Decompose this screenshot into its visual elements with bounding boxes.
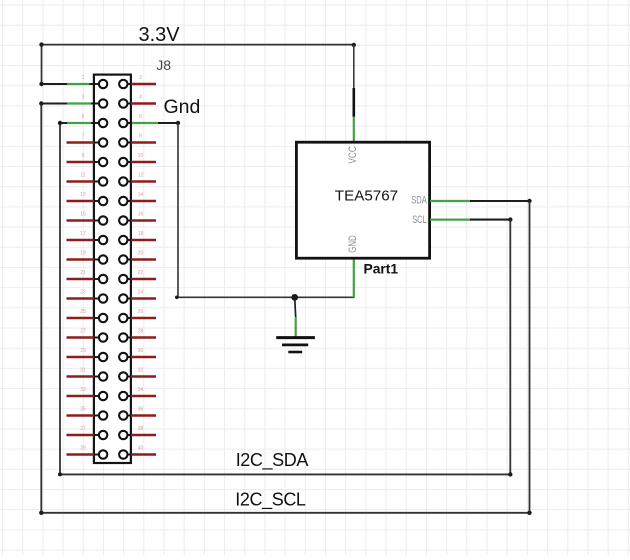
pin 28 pad: [119, 333, 127, 341]
svg-text:40: 40: [138, 446, 144, 452]
pin 2 pad: [119, 80, 127, 88]
connector J8 body: [94, 75, 131, 463]
node SDA corner: [527, 199, 531, 203]
svg-text:SDA: SDA: [411, 194, 427, 206]
pin 14 lead (right stub): [127, 200, 156, 202]
svg-text:36: 36: [138, 407, 144, 413]
pin 20 lead (right stub): [127, 259, 156, 261]
svg-text:22: 22: [138, 270, 144, 276]
pin 29 pad: [99, 353, 107, 361]
svg-text:8: 8: [139, 134, 142, 140]
pin 17 pad: [99, 236, 107, 244]
pin 9 pad: [99, 158, 107, 166]
svg-text:15: 15: [80, 212, 86, 218]
pin 10 pad: [119, 158, 127, 166]
pin 38 pad: [119, 431, 127, 439]
wire VCC drop lower: [352, 88, 355, 117]
pin 26 pad: [119, 314, 127, 322]
svg-text:12: 12: [138, 173, 144, 179]
pin VCC lead of U1 (green): [353, 117, 355, 144]
svg-text:2: 2: [139, 75, 142, 81]
pin 4 pad: [119, 99, 127, 107]
svg-text:39: 39: [80, 446, 86, 452]
pin 13 pad: [99, 197, 107, 205]
pin 8 pad: [119, 138, 127, 146]
pin 15 pad: [99, 216, 107, 224]
wire ground net horizontal: [177, 296, 355, 298]
pin 24 lead (right stub): [127, 298, 156, 300]
pin 38 lead (right stub): [127, 434, 156, 436]
pin 4 lead (right stub): [127, 103, 156, 105]
pin 18 pad: [119, 236, 127, 244]
pin 27 pad: [99, 333, 107, 341]
svg-text:20: 20: [138, 251, 144, 257]
pin 19 lead (left stub): [67, 258, 100, 260]
pin 12 lead (right stub): [127, 181, 156, 183]
svg-text:25: 25: [80, 309, 86, 315]
pin 30 pad: [119, 353, 127, 361]
pin 32 pad: [119, 372, 127, 380]
pin 5 lead green: [67, 122, 91, 124]
svg-text:30: 30: [138, 348, 144, 354]
svg-text:18: 18: [138, 231, 144, 237]
svg-text:23: 23: [80, 290, 86, 296]
pin 9 lead (left stub): [67, 161, 100, 163]
ground symbol lead (green): [295, 317, 297, 338]
svg-text:11: 11: [80, 173, 85, 179]
ground symbol: [276, 338, 315, 352]
svg-text:17: 17: [80, 231, 86, 237]
node I2C_SDA right corner: [508, 472, 512, 476]
wire I2C_SDA horizontal: [60, 473, 510, 475]
pin 33 lead (left stub): [67, 395, 100, 397]
pin 16 pad: [119, 216, 127, 224]
wire 3.3V net left vertical: [41, 45, 43, 84]
pin 18 lead (right stub): [127, 239, 156, 241]
pin 15 lead (left stub): [67, 219, 100, 221]
pin 14 pad: [119, 197, 127, 205]
pin 32 lead (right stub): [127, 376, 156, 378]
pin SCL lead of U1 (green): [430, 219, 471, 221]
pin 28 lead (right stub): [127, 337, 156, 339]
svg-text:J8: J8: [156, 57, 171, 73]
pin 6 pad: [119, 119, 127, 127]
pin 31 lead (left stub): [67, 375, 100, 377]
pin 17 lead (left stub): [67, 239, 100, 241]
pin 34 pad: [119, 392, 127, 400]
pin 6 lead tick: [127, 122, 131, 124]
node 3.3V right corner: [352, 43, 356, 47]
pin 33 pad: [99, 392, 107, 400]
pin GND lead of U1 (green): [353, 258, 355, 297]
pin 34 lead (right stub): [127, 395, 156, 397]
wire SDA to outer vertical: [470, 200, 530, 202]
node pin1 wire end: [39, 82, 43, 86]
svg-text:21: 21: [80, 270, 86, 276]
pin 16 lead (right stub): [127, 220, 156, 222]
pin 1 lead tick: [94, 83, 99, 85]
svg-text:26: 26: [138, 309, 144, 315]
pin 39 lead (left stub): [67, 453, 100, 455]
svg-text:3: 3: [82, 95, 85, 101]
pin 27 lead (left stub): [67, 336, 100, 338]
svg-text:27: 27: [80, 329, 86, 335]
svg-text:19: 19: [80, 251, 86, 257]
svg-text:Gnd: Gnd: [164, 96, 201, 118]
pin 10 lead (right stub): [127, 161, 156, 163]
wire ground stem: [295, 297, 296, 317]
pin 13 lead (left stub): [67, 200, 100, 202]
svg-text:Part1: Part1: [364, 262, 399, 277]
svg-text:9: 9: [82, 153, 85, 159]
pin 11 pad: [99, 177, 107, 185]
svg-text:29: 29: [80, 348, 86, 354]
wire pin6 to ground net horizontal: [127, 122, 178, 124]
pin SDA lead of U1 (green): [430, 200, 471, 202]
pin 25 pad: [99, 314, 107, 322]
pin 36 pad: [119, 411, 127, 419]
pin 3 lead tick: [94, 103, 99, 105]
pin 37 pad: [99, 431, 107, 439]
pin 35 lead (left stub): [67, 414, 100, 416]
node pin5 corner: [58, 121, 62, 125]
pin 20 pad: [119, 255, 127, 263]
svg-text:VCC: VCC: [347, 146, 359, 164]
wire SCL to inner vertical: [470, 219, 510, 221]
wire VCC drop upper: [353, 45, 355, 89]
wire right outer vertical: [529, 201, 531, 513]
node pin6 junction: [176, 121, 180, 125]
pin 26 lead (right stub): [127, 317, 156, 319]
pin 6 lead green: [131, 122, 158, 124]
svg-text:TEA5767: TEA5767: [335, 187, 398, 204]
pin 2 lead (right stub): [127, 83, 156, 85]
svg-text:24: 24: [138, 290, 144, 296]
pin 35 pad: [99, 411, 107, 419]
pin 23 lead (left stub): [67, 297, 100, 299]
pin 37 lead (left stub): [67, 434, 100, 436]
pin 39 pad: [99, 450, 107, 458]
pin 40 lead (right stub): [127, 454, 156, 456]
svg-text:16: 16: [138, 212, 144, 218]
pin 36 lead (right stub): [127, 415, 156, 417]
svg-text:I2C_SDA: I2C_SDA: [236, 450, 309, 471]
pin 25 lead (left stub): [67, 317, 100, 319]
pin 3 lead green: [67, 102, 91, 104]
svg-text:5: 5: [82, 114, 85, 120]
svg-text:13: 13: [80, 192, 86, 198]
pin 29 lead (left stub): [67, 356, 100, 358]
svg-text:3.3V: 3.3V: [139, 24, 181, 46]
svg-text:I2C_SCL: I2C_SCL: [235, 490, 306, 511]
node I2C_SCL left corner: [39, 511, 43, 515]
wire 3.3V net horizontal: [42, 44, 354, 46]
svg-text:35: 35: [80, 407, 86, 413]
node 3.3V left corner: [39, 42, 43, 46]
pin 11 lead (left stub): [67, 180, 100, 182]
node ground wire left end: [175, 296, 179, 300]
pin 1 lead green: [67, 83, 90, 85]
wire pin3 to I2C_SCL left vertical: [40, 104, 42, 513]
pin 7 lead (left stub): [67, 141, 100, 143]
pin 5 pad: [99, 119, 107, 127]
wire pin1 (3.3V) horizontal: [42, 83, 100, 85]
wire pin3 horizontal: [41, 103, 99, 105]
svg-text:7: 7: [82, 134, 85, 140]
wire pin5 horizontal: [60, 122, 99, 124]
pin 12 pad: [119, 177, 127, 185]
pin 21 pad: [99, 275, 107, 283]
pin 40 pad: [119, 450, 127, 458]
wire right inner vertical: [509, 220, 511, 475]
svg-text:32: 32: [138, 368, 144, 374]
pin 22 pad: [119, 275, 127, 283]
pin 23 pad: [99, 294, 107, 302]
svg-text:SCL: SCL: [412, 214, 427, 226]
pin 5 lead tick: [94, 122, 99, 124]
svg-text:38: 38: [138, 426, 144, 432]
node I2C_SDA left corner: [58, 472, 62, 476]
svg-text:GND: GND: [347, 235, 359, 253]
svg-text:33: 33: [80, 387, 86, 393]
node pin3 corner: [39, 101, 43, 105]
svg-text:4: 4: [139, 95, 142, 101]
svg-text:37: 37: [80, 426, 86, 432]
pin 8 lead (right stub): [127, 142, 156, 144]
node I2C_SCL right corner: [527, 511, 531, 515]
svg-text:31: 31: [80, 368, 86, 374]
pin 30 lead (right stub): [127, 356, 156, 358]
pin 21 lead (left stub): [67, 278, 100, 280]
pin 1 pad: [99, 80, 107, 88]
svg-text:14: 14: [138, 192, 144, 198]
IC U1 TEA5767 body: [296, 142, 429, 258]
node SCL corner: [508, 217, 512, 221]
pin 3 pad: [99, 99, 107, 107]
svg-text:1: 1: [82, 75, 85, 81]
wire I2C_SCL horizontal: [41, 512, 529, 514]
pin 24 pad: [119, 294, 127, 302]
pin 7 pad: [99, 138, 107, 146]
wire pin5 to I2C_SDA left vertical: [59, 123, 61, 474]
pin 31 pad: [99, 372, 107, 380]
node ground junction: [291, 294, 298, 301]
pin 22 lead (right stub): [127, 278, 156, 280]
pin 19 pad: [99, 255, 107, 263]
svg-text:28: 28: [138, 329, 144, 335]
svg-text:6: 6: [139, 114, 142, 120]
svg-text:10: 10: [138, 153, 144, 159]
svg-text:34: 34: [138, 387, 144, 393]
wire ground net vertical: [177, 123, 179, 297]
